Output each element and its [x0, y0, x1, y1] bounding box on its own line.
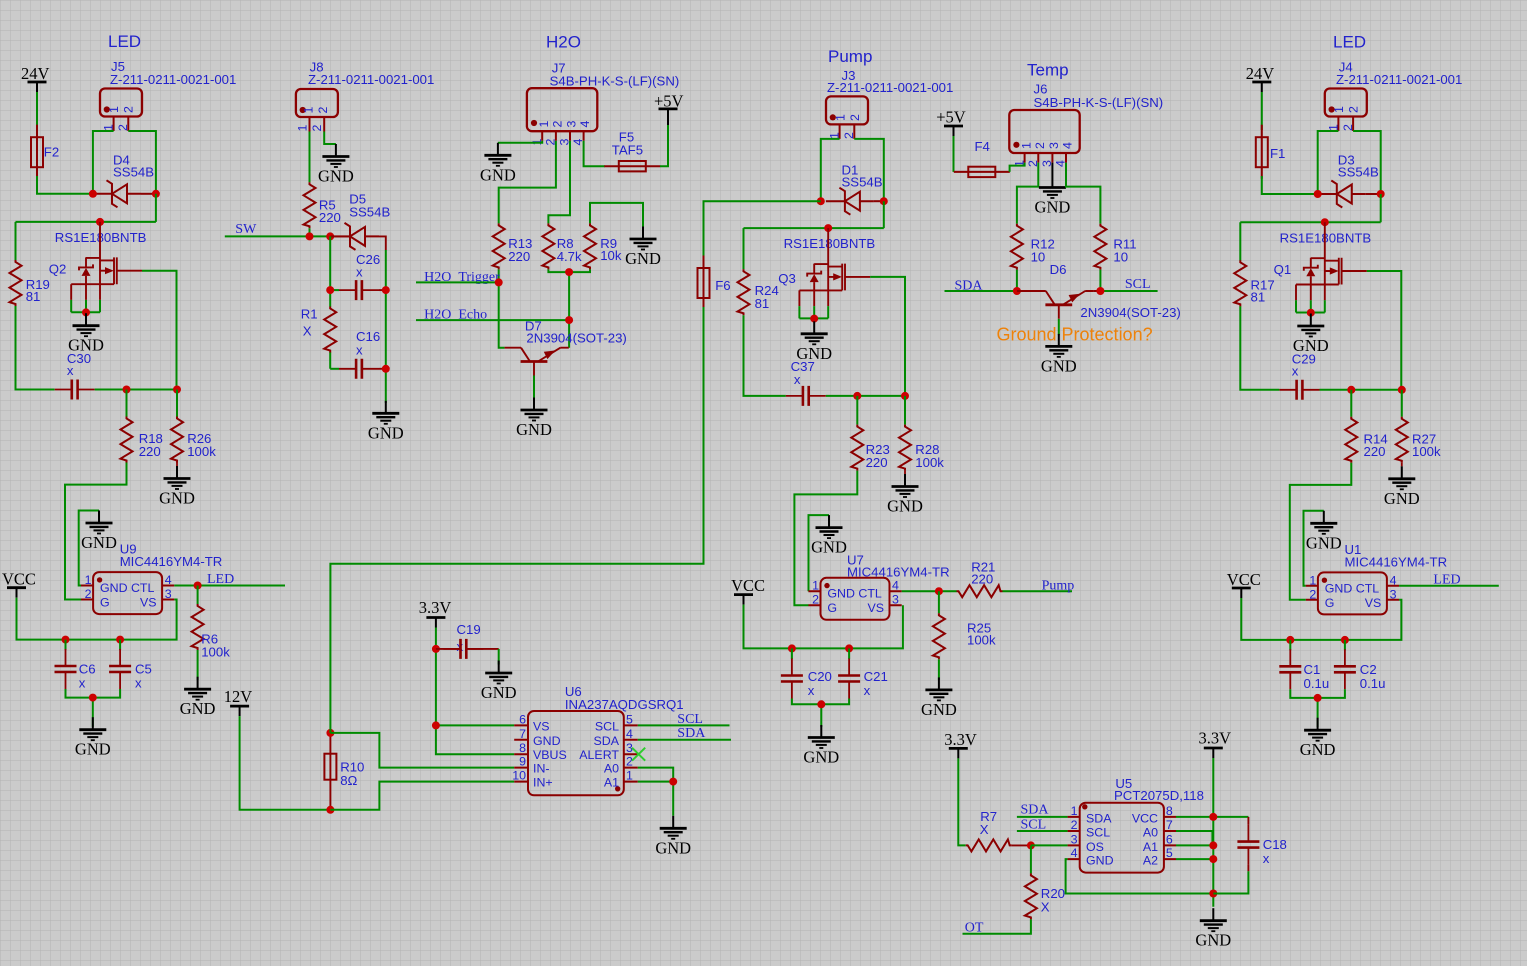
connector J5	[100, 59, 236, 131]
svg-text:1: 1	[85, 573, 92, 587]
ground below D7	[516, 398, 552, 440]
svg-text:4: 4	[1071, 846, 1078, 860]
svg-text:VS: VS	[140, 596, 157, 610]
svg-text:2: 2	[116, 124, 130, 131]
junction	[495, 278, 503, 286]
wire U6 SDA	[638, 739, 731, 741]
capacitor C16	[330, 329, 386, 379]
transistor Q3 RS1E180BNTB	[778, 228, 875, 318]
ground below C6 C5	[75, 717, 111, 759]
svg-text:VS: VS	[533, 719, 550, 733]
power flag 3.3V right	[1199, 729, 1232, 758]
svg-text:24V: 24V	[21, 64, 50, 83]
wire F2 to D4 anode node	[37, 176, 93, 194]
wire U5 pin6	[1176, 844, 1213, 846]
wire LED node to R6	[197, 586, 199, 605]
svg-text:SS54B: SS54B	[1338, 165, 1379, 180]
svg-text:5: 5	[1166, 846, 1173, 860]
connector J7 S4B-PH-K-S-(LF)(SN)	[527, 60, 679, 145]
fuse F4	[954, 139, 1010, 177]
junction	[853, 392, 861, 400]
wire J6 pin1 to F4	[1010, 163, 1025, 172]
svg-text:10: 10	[1113, 249, 1128, 264]
op-amp monitor U6 INA237AQDGSRQ1	[512, 684, 683, 796]
power flag 3.3V at C19	[419, 598, 452, 628]
wire J6 pin4 to R11	[1066, 163, 1100, 224]
wire R12 to SDA node	[1016, 270, 1018, 291]
svg-text:IN-: IN-	[533, 762, 550, 776]
svg-text:OT: OT	[965, 921, 984, 936]
svg-text:Z-211-0211-0021-001: Z-211-0211-0021-001	[110, 72, 236, 87]
svg-text:3: 3	[1047, 142, 1061, 149]
section title Pump	[828, 47, 872, 66]
svg-text:220: 220	[971, 572, 993, 587]
svg-text:12V: 12V	[224, 687, 253, 706]
svg-text:x: x	[794, 372, 801, 387]
svg-text:VCC: VCC	[1227, 570, 1261, 589]
capacitor C2 0.1u	[1334, 640, 1386, 691]
svg-text:2: 2	[848, 114, 862, 121]
junction	[880, 197, 888, 205]
svg-text:2: 2	[1033, 142, 1047, 149]
capacitor C37	[786, 359, 826, 406]
connector J6 S4B-PH-K-S-(LF)(SN)	[1009, 82, 1163, 168]
junction	[901, 392, 909, 400]
svg-text:x: x	[79, 676, 86, 691]
wire +5V to F4	[953, 136, 955, 172]
svg-text:A1: A1	[1143, 840, 1158, 854]
comment Ground Protection?	[997, 325, 1153, 345]
transistor Q1 RS1E180BNTB	[1274, 222, 1372, 312]
wire D7 emitter to gnd	[533, 376, 535, 398]
svg-text:100k: 100k	[1412, 444, 1441, 459]
wire right rail down	[385, 250, 387, 403]
wire F1 to D3 anode node	[1262, 176, 1318, 194]
junction	[326, 806, 334, 814]
svg-text:RS1E180BNTB: RS1E180BNTB	[784, 236, 876, 251]
svg-text:2: 2	[812, 593, 819, 607]
net label SCL	[1021, 817, 1047, 832]
svg-text:2: 2	[85, 587, 92, 601]
section title Temp	[1027, 61, 1069, 80]
wire left rail SW down	[329, 236, 331, 368]
svg-text:9: 9	[519, 755, 526, 769]
wire left rail R19	[16, 222, 55, 390]
wire R10 top to IN-	[330, 733, 514, 768]
power flag 24V	[21, 64, 50, 92]
wire H2O_Trigger	[416, 282, 505, 347]
transistor D6 2N3904	[1017, 262, 1181, 320]
power flag 24V	[1246, 64, 1275, 92]
svg-text:X: X	[303, 324, 312, 339]
diode D5 SS54B	[330, 191, 390, 250]
wire C29 node to R14	[1350, 390, 1352, 417]
wire VCC rail to U7 pin3	[744, 605, 903, 649]
ground below R26	[159, 463, 195, 508]
svg-text:220: 220	[1364, 444, 1386, 459]
ground below R27	[1384, 463, 1420, 508]
power flag VCC	[2, 570, 36, 598]
svg-text:Z-211-0211-0021-001: Z-211-0211-0021-001	[308, 72, 434, 87]
svg-text:3: 3	[1390, 587, 1397, 601]
ground below right rail	[368, 401, 404, 443]
wire R11 to SCL node	[1099, 270, 1101, 291]
wire U5 pin4 gnd loop	[1066, 859, 1214, 893]
svg-text:x: x	[808, 683, 815, 698]
net label SDA	[1021, 803, 1050, 818]
svg-text:220: 220	[508, 249, 530, 264]
junction	[1314, 190, 1322, 198]
svg-text:SDA: SDA	[677, 726, 706, 741]
svg-text:2N3904(SOT-23): 2N3904(SOT-23)	[526, 330, 626, 345]
svg-text:7: 7	[1166, 818, 1173, 832]
capacitor C6	[55, 640, 96, 691]
wire J4 pin1 loop	[1318, 131, 1339, 194]
ground below R25	[921, 659, 957, 719]
junction	[1314, 694, 1322, 702]
svg-text:8: 8	[1166, 804, 1173, 818]
svg-text:LED: LED	[207, 572, 234, 587]
ground below R6	[180, 650, 216, 718]
net label H2O_Echo	[424, 308, 487, 323]
resistor R28 100k	[899, 425, 944, 471]
diode D1 SS54B	[826, 162, 884, 214]
svg-text:4: 4	[578, 121, 592, 128]
junction	[89, 190, 97, 198]
wire D6 emitter to gnd	[1058, 319, 1060, 336]
junction	[152, 190, 160, 198]
svg-text:SW: SW	[235, 222, 257, 237]
svg-text:x: x	[356, 265, 363, 280]
wire C29 to R14 R27	[1320, 389, 1402, 391]
resistor R21 220	[957, 560, 1003, 598]
svg-text:VBUS: VBUS	[533, 748, 567, 762]
power flag +5V	[654, 92, 684, 125]
section title LED	[1333, 33, 1366, 52]
wire D4 to drain rail	[16, 194, 156, 222]
svg-text:GND: GND	[533, 734, 561, 748]
svg-text:Pump: Pump	[828, 47, 872, 66]
resistor R19 81	[10, 260, 50, 306]
svg-text:C20: C20	[808, 669, 832, 684]
junction	[1209, 855, 1217, 863]
wire R20 to OT	[963, 919, 1031, 933]
svg-text:G: G	[827, 601, 837, 615]
svg-text:VS: VS	[1365, 596, 1382, 610]
svg-text:X: X	[980, 822, 989, 837]
fuse F5 TAF5	[604, 130, 660, 172]
section title H2O	[546, 33, 581, 52]
wire U9 pin4 LED net	[174, 585, 285, 587]
wire U6 SCL	[638, 724, 730, 726]
junction	[810, 315, 818, 323]
net label SW	[235, 222, 257, 237]
svg-text:SCL: SCL	[1086, 826, 1110, 840]
junction	[1286, 636, 1294, 644]
svg-text:100k: 100k	[915, 455, 944, 470]
ground below Q1	[1293, 314, 1329, 356]
svg-text:x: x	[67, 363, 74, 378]
svg-text:C1: C1	[1304, 662, 1321, 677]
wire 3.3V rail to U6	[436, 628, 514, 755]
svg-text:VCC: VCC	[1132, 811, 1158, 825]
wire VCC rail to U9 pin3	[17, 598, 177, 640]
svg-text:SS54B: SS54B	[113, 165, 154, 180]
junction	[89, 694, 97, 702]
junction	[824, 224, 832, 232]
svg-text:F4: F4	[975, 139, 990, 154]
wire R13 to trigger node	[498, 269, 500, 282]
wire J5 pin1 loop	[93, 131, 114, 194]
junction	[62, 636, 70, 644]
svg-text:2: 2	[1309, 587, 1316, 601]
svg-text:220: 220	[139, 444, 161, 459]
op-amp driver U7 MIC4416YM4-TR	[808, 553, 949, 620]
junction	[1321, 218, 1329, 226]
junction	[1096, 287, 1104, 295]
wire J7 pin3 to R8	[548, 141, 570, 224]
svg-text:R1: R1	[301, 306, 318, 321]
capacitor C20	[781, 648, 832, 698]
wire SDA to U5 pin1	[1017, 816, 1068, 818]
svg-text:C19: C19	[457, 622, 481, 637]
wire R18 to U9 pin2	[65, 463, 127, 600]
svg-text:VS: VS	[867, 601, 884, 615]
junction	[1377, 190, 1385, 198]
wire U6 A1 to gnd	[638, 782, 673, 816]
wire pump node to R25	[938, 591, 940, 613]
power flag VCC	[731, 576, 765, 605]
wire D3 to drain rail	[1240, 194, 1380, 222]
svg-text:1: 1	[102, 124, 116, 131]
svg-text:100k: 100k	[201, 645, 230, 660]
svg-text:81: 81	[755, 296, 770, 311]
junction	[1209, 890, 1217, 898]
wire 24V to F1	[1261, 92, 1263, 130]
svg-text:MIC4416YM4-TR: MIC4416YM4-TR	[1345, 555, 1448, 570]
wire R8 R9 bottoms	[548, 269, 590, 347]
svg-text:220: 220	[866, 455, 888, 470]
resistor R18 220	[121, 417, 163, 463]
wire C1 C2 bottoms	[1290, 689, 1345, 727]
wire U1 pin4 LED net	[1399, 585, 1499, 587]
junction	[1013, 287, 1021, 295]
junction	[326, 286, 334, 294]
wire U9 pin1 to gnd flag	[79, 511, 99, 586]
svg-text:1: 1	[1309, 573, 1316, 587]
svg-text:81: 81	[26, 289, 41, 304]
wire U5 pin7	[1176, 831, 1212, 845]
svg-text:100k: 100k	[967, 633, 996, 648]
wire D1 right to drain rail	[744, 201, 884, 228]
svg-text:SCL: SCL	[1125, 277, 1151, 292]
svg-text:10: 10	[512, 769, 526, 783]
svg-text:SS54B: SS54B	[842, 175, 883, 190]
svg-text:Ground Protection?: Ground Protection?	[997, 325, 1153, 345]
wire 12V to R10 bottom	[240, 716, 331, 810]
wire 3.3V to R7	[958, 758, 965, 845]
svg-text:Q1: Q1	[1274, 262, 1292, 277]
svg-text:1: 1	[1071, 804, 1078, 818]
junction	[1307, 309, 1315, 317]
junction	[1209, 813, 1217, 821]
svg-text:LED: LED	[108, 32, 141, 51]
junction	[1027, 841, 1035, 849]
junction	[382, 365, 390, 373]
diode D4 SS54B	[93, 153, 156, 208]
wire C37 to R23 R28	[826, 395, 905, 397]
capacitor C19	[436, 622, 499, 659]
ground at C19	[481, 661, 517, 703]
svg-text:2: 2	[1346, 106, 1360, 113]
svg-text:3.3V: 3.3V	[419, 598, 452, 617]
wire U7 pin4 to R21	[902, 590, 957, 592]
op-amp driver U9 MIC4416YM4-TR	[81, 542, 222, 615]
svg-text:5: 5	[626, 712, 633, 726]
svg-text:3.3V: 3.3V	[1199, 729, 1232, 748]
wire U7 pin1 to gnd flag	[809, 515, 830, 591]
junction	[96, 218, 104, 226]
junction	[116, 636, 124, 644]
svg-text:C2: C2	[1360, 662, 1377, 677]
svg-text:S4B-PH-K-S-(LF)(SN): S4B-PH-K-S-(LF)(SN)	[1034, 95, 1164, 110]
svg-text:3: 3	[565, 121, 579, 128]
junction	[326, 729, 334, 737]
svg-text:4.7k: 4.7k	[557, 249, 582, 264]
wire J3 pin2 loop	[854, 139, 884, 201]
wire R23 to U7 pin2	[794, 471, 857, 606]
wire D5 to right rail	[379, 236, 386, 250]
svg-text:SCL: SCL	[677, 712, 703, 727]
ground above U9	[81, 511, 117, 553]
wire C18 bottom to rail	[1213, 871, 1248, 893]
wire U5 pin8 to rail and C18	[1176, 816, 1248, 818]
junction	[1341, 636, 1349, 644]
connector J4	[1325, 59, 1463, 131]
svg-text:SDA: SDA	[1086, 811, 1112, 825]
svg-text:1: 1	[107, 106, 121, 113]
svg-text:x: x	[135, 676, 142, 691]
svg-text:10: 10	[1031, 249, 1046, 264]
svg-text:2: 2	[1341, 124, 1355, 131]
svg-text:Z-211-0211-0021-001: Z-211-0211-0021-001	[1336, 72, 1462, 87]
wire to R23	[856, 396, 858, 425]
svg-text:GND CTL: GND CTL	[1325, 581, 1379, 595]
svg-text:0.1u: 0.1u	[1360, 676, 1386, 691]
resistor R6 100k	[192, 604, 231, 660]
junction	[788, 644, 796, 652]
wire J5 pin2 loop	[128, 131, 156, 194]
wire C29 node to R27	[1401, 390, 1403, 417]
wire C30 node to R26	[176, 390, 178, 417]
section title LED	[108, 32, 141, 51]
wire C19 to gnd	[498, 649, 500, 665]
wire J4 pin2 loop	[1353, 131, 1381, 194]
svg-text:VCC: VCC	[731, 576, 765, 595]
junction	[565, 268, 573, 276]
junction	[817, 197, 825, 205]
svg-text:2: 2	[626, 755, 633, 769]
svg-text:+5V: +5V	[936, 108, 966, 127]
svg-text:x: x	[1292, 363, 1299, 378]
svg-text:0.1u: 0.1u	[1304, 676, 1330, 691]
ground below D6	[1041, 334, 1077, 376]
svg-text:8: 8	[519, 741, 526, 755]
wire R9 top to gnd	[590, 203, 643, 230]
svg-text:X: X	[1041, 900, 1050, 915]
wire to R28	[904, 396, 906, 425]
no-connect X at ALERT	[632, 748, 645, 761]
wire 24V to F2	[36, 92, 38, 130]
junction	[432, 645, 440, 653]
svg-text:220: 220	[319, 210, 341, 225]
wire SCL to U5 pin2	[1017, 830, 1068, 832]
junction	[935, 587, 943, 595]
resistor R9 10k	[584, 223, 622, 269]
svg-text:81: 81	[1251, 289, 1266, 304]
svg-text:Z-211-0211-0021-001: Z-211-0211-0021-001	[827, 80, 953, 95]
svg-text:2: 2	[842, 132, 856, 139]
resistor R12 10	[1011, 224, 1055, 270]
wire Q2 gate to C30 node	[142, 271, 177, 390]
wire C30 node to R18	[126, 390, 128, 417]
wire R21 to Pump net	[1003, 590, 1073, 592]
capacitor C30	[55, 351, 95, 400]
svg-text:Q2: Q2	[49, 262, 67, 277]
junction	[382, 286, 390, 294]
svg-text:1: 1	[833, 114, 847, 121]
svg-text:3: 3	[1071, 833, 1078, 847]
svg-text:ALERT: ALERT	[579, 748, 619, 762]
svg-text:2N3904(SOT-23): 2N3904(SOT-23)	[1080, 305, 1180, 320]
wire J7 pin2 to R13	[499, 141, 556, 224]
wire VCC rail to U1 pin3	[1241, 598, 1401, 640]
resistor R20 X	[1025, 873, 1065, 919]
ground below R28	[887, 471, 923, 516]
wire 3.3V rail down to gnd	[1212, 758, 1214, 907]
junction	[1398, 386, 1406, 394]
capacitor C21	[838, 648, 888, 698]
junction	[194, 582, 202, 590]
wire U5 pin5	[1176, 858, 1213, 860]
resistor R5 220	[304, 182, 341, 228]
wire R5 to SW node	[309, 228, 311, 236]
svg-text:4: 4	[892, 579, 899, 593]
svg-text:1: 1	[296, 125, 310, 132]
svg-text:TAF5: TAF5	[612, 142, 643, 157]
svg-text:2: 2	[310, 125, 324, 132]
capacitor C5	[109, 640, 152, 691]
wire D1 to F6 long sense wire	[704, 201, 821, 259]
svg-text:A0: A0	[1143, 826, 1158, 840]
resistor R13 220	[493, 223, 533, 269]
svg-text:IN+: IN+	[533, 776, 553, 790]
net label LED	[1433, 572, 1460, 587]
svg-text:2: 2	[551, 121, 565, 128]
capacitor C29	[1280, 351, 1320, 400]
svg-text:1: 1	[301, 107, 315, 114]
svg-text:A2: A2	[1143, 854, 1158, 868]
ground at J8	[318, 144, 354, 186]
junction	[845, 644, 853, 652]
svg-text:100k: 100k	[187, 444, 216, 459]
ground above U7	[811, 515, 847, 557]
svg-text:1: 1	[626, 769, 633, 783]
svg-text:MIC4416YM4-TR: MIC4416YM4-TR	[120, 554, 223, 569]
power flag +5V	[936, 108, 966, 136]
net label OT	[965, 921, 984, 936]
ground at J7	[480, 143, 516, 185]
